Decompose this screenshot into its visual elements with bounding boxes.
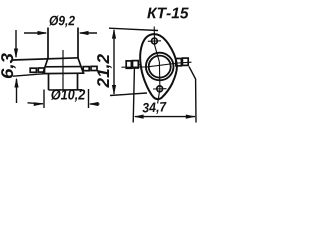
skirt right slant xyxy=(78,58,84,74)
left lug inner (side view) xyxy=(38,68,44,72)
dim line left segment with arrow xyxy=(24,31,48,35)
vertical axis centerline xyxy=(154,27,160,104)
right lug inner (top view) xyxy=(176,59,182,66)
D10,2 extension line right xyxy=(88,89,90,108)
34,7 dim line with arrows xyxy=(134,115,196,119)
bottom mounting hole xyxy=(157,86,163,92)
left lug inner (top view) xyxy=(133,61,139,68)
right lug inner (side view) xyxy=(83,67,89,71)
21,2 text xyxy=(97,54,112,88)
bottom hole horizontal centerline xyxy=(153,88,167,90)
D10,2 dim arrow left xyxy=(28,102,45,106)
flange top line xyxy=(45,66,81,68)
34,7 text xyxy=(142,102,167,115)
horizontal centerline through lugs and circle xyxy=(122,62,192,67)
big circle outer xyxy=(146,53,174,81)
21,2 bottom extension line xyxy=(110,93,147,96)
boss left edge xyxy=(48,74,50,90)
right lug outer (top view) xyxy=(182,58,188,65)
flange bottom extension line xyxy=(13,74,43,76)
21,2 dim line with arrows xyxy=(112,29,116,95)
boss bottom line xyxy=(49,89,83,91)
6,3 upper arrow xyxy=(14,30,18,59)
left lug outer (side view) xyxy=(30,68,36,72)
6,3 text xyxy=(1,53,16,78)
21,2 top extension line xyxy=(109,28,158,30)
34,7 right extension line xyxy=(189,67,196,123)
cap side / extension line right xyxy=(77,28,79,59)
6,3 lower arrow xyxy=(14,78,18,104)
label KT-15 xyxy=(147,8,188,19)
top mounting hole xyxy=(152,38,158,44)
right lug outer (side view) xyxy=(91,66,97,70)
dim line right segment with arrow xyxy=(79,31,98,35)
boss right edge xyxy=(77,73,79,90)
D10,2 extension line left xyxy=(43,90,45,109)
left lug outer (top view) xyxy=(126,61,131,68)
34,7 left extension line xyxy=(133,69,134,123)
connector left lug to oval xyxy=(138,64,141,66)
cap rim line extended left xyxy=(13,58,79,60)
cap side / extension line left xyxy=(47,28,49,59)
dim text D10,2 xyxy=(51,89,85,102)
oval flange outline xyxy=(140,34,177,99)
big circle inner xyxy=(149,56,171,78)
center line of side view xyxy=(62,50,64,91)
top hole horizontal centerline xyxy=(148,40,161,43)
D10,2 dim arrow right xyxy=(89,102,100,106)
flange bottom line xyxy=(43,72,85,74)
dim text D9,2 xyxy=(49,16,75,28)
skirt left slant xyxy=(43,58,48,74)
